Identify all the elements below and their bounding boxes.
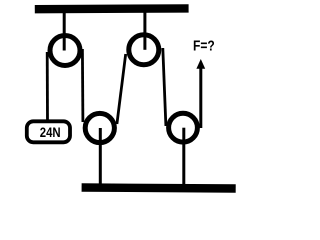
rope: pulley P1 left side down to weight box xyxy=(46,52,49,122)
pulley P2 (top-right fixed) xyxy=(129,35,159,65)
rope: pulley P4 right side up to force arrow xyxy=(199,66,202,128)
support rod for pulley P1 xyxy=(63,12,66,51)
ceiling bar xyxy=(35,4,189,13)
force arrowhead xyxy=(196,59,205,69)
label 24N xyxy=(40,124,61,140)
support rod from pulley P4 to bottom bar xyxy=(182,128,185,186)
pulley P3 (bottom-left movable) xyxy=(85,113,114,142)
svg-text:24N: 24N xyxy=(40,124,61,140)
svg-text:F=?: F=? xyxy=(193,38,215,54)
support rod from pulley P3 to bottom bar xyxy=(99,128,102,186)
pulley P1 (top-left fixed) xyxy=(50,36,80,66)
label F=? xyxy=(193,38,215,54)
rope: pulley P1 right side down to pulley P3 left side xyxy=(81,49,84,122)
rope: pulley P3 right side up to pulley P2 left side xyxy=(117,54,126,124)
support rod for pulley P2 xyxy=(143,12,146,50)
bottom bar xyxy=(82,188,236,189)
pulley P4 (bottom-right movable) xyxy=(169,113,198,142)
weight box xyxy=(27,121,70,142)
rope: pulley P2 right side down to pulley P4 left side xyxy=(163,48,166,126)
